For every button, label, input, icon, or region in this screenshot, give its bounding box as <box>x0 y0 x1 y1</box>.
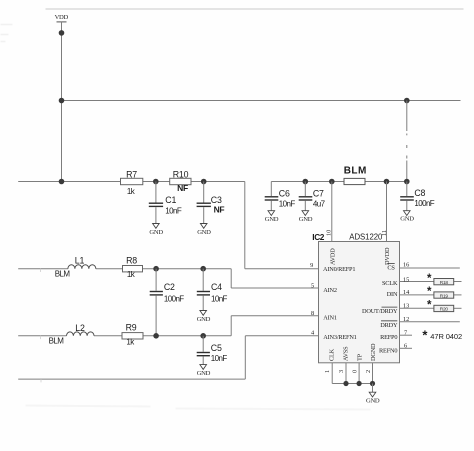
faint left edge artifacts <box>1 25 13 42</box>
wire bottom pin bus y=383 <box>332 383 372 385</box>
svg-text:C5: C5 <box>211 343 222 353</box>
resistor R10 <box>170 169 191 193</box>
svg-text:REFP0: REFP0 <box>380 334 397 341</box>
svg-text:IC2: IC2 <box>312 232 324 242</box>
svg-text:R20: R20 <box>440 307 449 313</box>
svg-text:*: * <box>427 300 432 312</box>
svg-text:*: * <box>427 273 432 285</box>
wire pin9 to IC <box>245 268 319 270</box>
ground C5 <box>197 365 211 378</box>
svg-text:100nF: 100nF <box>164 295 184 304</box>
pin 13 wire DOUT <box>400 307 434 309</box>
svg-text:C2: C2 <box>164 282 175 292</box>
svg-text:REFN0: REFN0 <box>379 347 397 354</box>
svg-text:15: 15 <box>403 276 409 283</box>
svg-text:ADS1220: ADS1220 <box>349 233 383 242</box>
svg-text:0: 0 <box>351 370 358 373</box>
pin AVSS stub <box>345 363 347 384</box>
svg-text:9: 9 <box>310 262 313 269</box>
svg-text:6: 6 <box>404 342 407 349</box>
svg-text:10nF: 10nF <box>165 207 182 216</box>
pin 16 wire CS <box>400 267 460 269</box>
svg-text:NF: NF <box>177 183 188 193</box>
svg-text:GND: GND <box>265 216 279 223</box>
capacitor C3 <box>197 182 225 224</box>
svg-text:SCLK: SCLK <box>382 280 398 287</box>
wire top rail y=100 <box>62 100 461 102</box>
svg-text:NF: NF <box>214 204 225 214</box>
ground C3 <box>197 224 211 237</box>
junction top rail right <box>404 98 410 104</box>
faint stub tick <box>40 336 42 339</box>
svg-text:R10: R10 <box>173 169 189 179</box>
pin TP stub <box>358 363 360 384</box>
capacitor C2 <box>150 269 185 336</box>
svg-text:47R 0402: 47R 0402 <box>430 332 462 341</box>
junction bus TP <box>357 381 362 386</box>
wire GND drop <box>372 384 374 393</box>
capacitor C7 <box>299 182 326 211</box>
pin name DRDY (overline) <box>380 321 398 329</box>
svg-text:AIN1: AIN1 <box>323 314 337 321</box>
junction C8 corner <box>404 179 410 185</box>
resistor R20 <box>427 300 454 313</box>
svg-text:16: 16 <box>403 262 409 269</box>
wire VDD vertical x=61 <box>61 22 63 182</box>
svg-text:1: 1 <box>324 370 331 373</box>
resistor R19 <box>427 286 454 299</box>
junction AVDD stub <box>329 179 335 185</box>
svg-text:12: 12 <box>403 316 409 323</box>
faint bottom smudges <box>26 406 371 410</box>
svg-text:14: 14 <box>403 289 410 296</box>
capacitor C5 <box>197 336 228 365</box>
pin 12 wire DRDY <box>400 321 460 323</box>
junction top rail left <box>59 98 65 104</box>
junction C5 top <box>200 333 206 339</box>
faint stub tick <box>40 269 42 272</box>
svg-text:C4: C4 <box>211 282 222 292</box>
svg-text:GND: GND <box>299 216 313 223</box>
resistor R9 <box>122 323 143 347</box>
faint frame line top <box>46 8 464 10</box>
svg-text:2: 2 <box>365 370 372 373</box>
svg-text:R18: R18 <box>440 280 449 286</box>
junction DVDD stub <box>384 179 390 185</box>
svg-text:TP: TP <box>357 353 364 361</box>
svg-text:AIN3/REFN1: AIN3/REFN1 <box>323 334 356 341</box>
svg-text:C1: C1 <box>165 195 176 205</box>
inductor L1 <box>55 256 96 279</box>
capacitor C8 <box>400 182 435 211</box>
ground IC <box>366 392 380 404</box>
wire AIN0 rail y=268.2 (L1/R8) <box>18 268 231 270</box>
svg-text:10nF: 10nF <box>211 354 228 363</box>
junction C4 top <box>200 266 206 272</box>
resistor R7 <box>121 169 143 196</box>
ground C7 <box>299 211 313 223</box>
junction C2 top <box>153 266 159 272</box>
wire AIN1 drop x=230.7 <box>230 316 232 336</box>
pin CLK stub <box>331 363 333 384</box>
wire DVDD stub x=386 <box>386 182 388 242</box>
inductor L2 <box>49 323 94 346</box>
junction VDD pin <box>59 30 65 36</box>
wire R7 rail y=181 <box>18 181 245 183</box>
resistor R8 <box>123 255 143 279</box>
svg-text:R8: R8 <box>126 255 137 265</box>
svg-text:10nF: 10nF <box>211 295 228 304</box>
svg-text:C3: C3 <box>211 195 222 205</box>
svg-text:DOUT/DRDY: DOUT/DRDY <box>362 308 398 315</box>
pin name CS (overline) <box>387 264 395 272</box>
svg-text:GND: GND <box>366 397 380 404</box>
svg-text:L2: L2 <box>75 323 85 333</box>
svg-text:GND: GND <box>400 215 414 222</box>
pin name DOUT/DRDY (overline on DRDY) <box>362 307 398 315</box>
svg-text:AVDD: AVDD <box>330 248 337 265</box>
svg-text:VDD: VDD <box>55 14 69 21</box>
wire VDD drop to BLM rail (part solid, part dashed) <box>406 101 408 182</box>
svg-text:7: 7 <box>404 330 407 337</box>
svg-text:*: * <box>427 286 432 298</box>
svg-text:GND: GND <box>197 316 211 323</box>
svg-text:AVSS: AVSS <box>343 346 350 361</box>
wire AIN1 to IC y=315.2 <box>231 315 318 317</box>
wire AIN1 rail y=335.3 (L2/R9) <box>18 335 231 337</box>
svg-text:100nF: 100nF <box>414 199 434 208</box>
resistor R18 <box>427 273 454 286</box>
svg-text:AIN2: AIN2 <box>323 287 337 294</box>
wire BLM rail y=181 <box>271 181 407 183</box>
faint stub tick <box>40 379 42 382</box>
node VDD <box>55 14 69 22</box>
wire AIN3 to IC <box>245 335 318 337</box>
svg-text:GND: GND <box>197 229 211 236</box>
svg-text:R19: R19 <box>440 293 449 299</box>
svg-text:C8: C8 <box>414 188 425 198</box>
ground C4 <box>197 311 211 324</box>
svg-text:DVDD: DVDD <box>384 247 391 265</box>
svg-text:DRDY: DRDY <box>380 322 398 329</box>
svg-text:AIN0/REFP1: AIN0/REFP1 <box>323 266 355 273</box>
wire AIN2 to IC <box>231 287 318 289</box>
svg-text:R7: R7 <box>126 169 137 179</box>
svg-text:13: 13 <box>403 303 409 310</box>
svg-text:5: 5 <box>311 283 314 290</box>
svg-text:11: 11 <box>381 230 388 236</box>
svg-text:C7: C7 <box>313 188 324 198</box>
wire AVDD stub x=331.3 <box>331 182 333 242</box>
junction C7 node <box>303 179 309 185</box>
op IC2 ADS1220 body <box>312 232 399 363</box>
ground C8 <box>400 211 414 223</box>
junction C2 bottom <box>153 333 159 339</box>
capacitor C6 <box>265 182 296 211</box>
svg-text:R9: R9 <box>126 323 137 333</box>
svg-text:GND: GND <box>197 370 211 377</box>
pin 15 wire SCLK <box>400 281 434 283</box>
svg-text:CLK: CLK <box>329 348 336 361</box>
svg-text:10: 10 <box>325 230 332 236</box>
wire AIN2 drop x=230.7 <box>230 269 232 288</box>
junction bus AVSS <box>343 381 348 386</box>
capacitor C1 <box>149 182 182 224</box>
svg-text:3: 3 <box>338 370 345 373</box>
wire AIN3 rail y=378.6 <box>18 378 245 380</box>
svg-text:DIN: DIN <box>387 291 398 298</box>
pin 14 wire DIN <box>400 294 434 296</box>
note 47R 0402 <box>422 327 462 342</box>
svg-text:BLM: BLM <box>49 337 65 346</box>
ground C1 <box>149 224 163 237</box>
svg-text:GND: GND <box>149 229 163 236</box>
junction C3 node <box>201 179 207 185</box>
svg-text:BLM: BLM <box>344 165 367 176</box>
svg-text:BLM: BLM <box>55 270 71 279</box>
svg-text:8: 8 <box>311 310 314 317</box>
pin 6 wire REFN0 <box>400 347 413 349</box>
svg-text:L1: L1 <box>75 256 85 266</box>
junction R7 left on VDD vertical <box>59 179 65 185</box>
svg-text:DGND: DGND <box>370 343 377 361</box>
capacitor C4 <box>197 269 228 311</box>
pin DGND stub <box>372 363 374 384</box>
svg-text:C6: C6 <box>279 188 290 198</box>
wire AIN3 riser x=244.8 <box>244 336 246 379</box>
ground C6 <box>265 211 279 223</box>
svg-text:10nF: 10nF <box>279 200 296 209</box>
pin 7 wire REFP0 <box>400 334 413 336</box>
junction bus DGND <box>370 381 375 386</box>
svg-text:CS: CS <box>387 264 395 271</box>
ferrite bead BLM <box>344 165 367 184</box>
svg-text:4u7: 4u7 <box>313 200 326 209</box>
wire pin9 riser x=244.3 <box>244 182 246 269</box>
junction C1 node <box>153 179 159 185</box>
